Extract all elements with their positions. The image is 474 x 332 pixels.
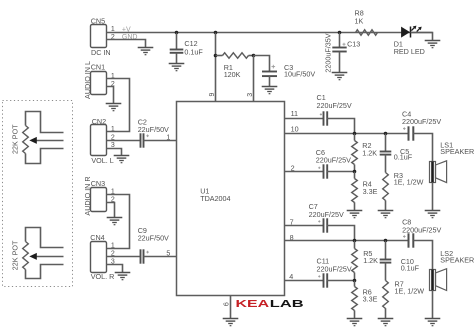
ground under R6 bbox=[347, 310, 363, 325]
svg-text:5: 5 bbox=[166, 251, 170, 258]
CN2 pin 2 number bbox=[111, 134, 115, 141]
ground at LED bbox=[425, 41, 441, 48]
svg-text:9: 9 bbox=[209, 93, 216, 97]
capacitor C3 bbox=[262, 63, 315, 79]
LED D1 bbox=[394, 26, 425, 56]
wire C2 to U1 pin1 bbox=[144, 140, 177, 142]
svg-text:11: 11 bbox=[291, 109, 298, 118]
wire U1 pin6 to ground bbox=[230, 296, 232, 319]
ground at CN3 pin2 bbox=[107, 218, 123, 225]
U1 pin 2 number bbox=[291, 163, 295, 172]
ground at CN2 pin3 bbox=[114, 156, 130, 163]
wire C11 to R5/R6 junction bbox=[327, 280, 355, 282]
wire C6 to R2/R4 junction bbox=[327, 171, 355, 173]
U1 pin 4 number bbox=[289, 272, 293, 281]
svg-text:2200uF/25V: 2200uF/25V bbox=[402, 117, 441, 126]
junction pin8/R5 bbox=[353, 239, 357, 243]
svg-text:22uF/50V: 22uF/50V bbox=[138, 125, 169, 134]
junction +V/C12 bbox=[175, 31, 179, 35]
AUDIO IN L label rotated bbox=[83, 61, 92, 99]
wire +V rail from CN5 pin1 to LED ground corner bbox=[107, 32, 433, 34]
ground under R4 bbox=[347, 202, 363, 217]
capacitor C13 bbox=[332, 40, 360, 52]
wire CN4 pin3 to ground bbox=[107, 265, 123, 273]
22K POT label (right) bbox=[11, 240, 20, 270]
ground under R7 bbox=[378, 308, 394, 326]
potentiometer dashed enclosure bbox=[3, 101, 73, 287]
ground under R3 bbox=[378, 200, 394, 217]
svg-text:TDA2004: TDA2004 bbox=[200, 194, 230, 203]
resistor R3 bbox=[383, 155, 424, 201]
wire R1 right to pin 3 of U1 bbox=[253, 56, 255, 102]
svg-text:CN2: CN2 bbox=[92, 117, 106, 126]
wire CN1 pin1 to CN2 pin1 bbox=[107, 79, 130, 132]
connector CN3 (AUDIO IN R) bbox=[91, 179, 107, 211]
svg-text:2200uF/25V: 2200uF/25V bbox=[402, 226, 441, 235]
resistor R2 bbox=[352, 134, 378, 172]
svg-text:VOL. R: VOL. R bbox=[91, 272, 115, 281]
capacitor C12 bbox=[170, 39, 204, 56]
C13 value label rotated bbox=[324, 33, 333, 72]
net label +V bbox=[122, 26, 131, 33]
capacitor C4 bbox=[402, 110, 441, 141]
CN3 pin 2 number bbox=[111, 197, 115, 204]
junction +V/C13 bbox=[338, 31, 342, 35]
connector CN2 (VOL. L) bbox=[91, 117, 114, 165]
capacitor C11 bbox=[317, 256, 352, 287]
capacitor C8 bbox=[402, 218, 441, 248]
svg-text:VOL. L: VOL. L bbox=[91, 156, 113, 165]
U1 pin 8 number bbox=[290, 233, 294, 242]
wire C1 to pin10 rail bbox=[327, 119, 355, 134]
connector CN4 (VOL. R) bbox=[90, 233, 114, 281]
svg-text:10uF/50V: 10uF/50V bbox=[284, 70, 315, 79]
svg-text:220uF/25V: 220uF/25V bbox=[316, 156, 351, 165]
CN5 pin 2 number bbox=[111, 34, 115, 41]
wire CN3 pin2 to ground bbox=[107, 203, 115, 218]
ground at CN4 pin3 bbox=[115, 273, 131, 280]
U1 pin 9 number rotated bbox=[209, 93, 216, 97]
svg-text:1E, 1/2W: 1E, 1/2W bbox=[394, 178, 424, 187]
svg-text:1.2K: 1.2K bbox=[363, 256, 378, 265]
wire CN4 pin2 to C9 bbox=[107, 256, 141, 258]
capacitor C2 bbox=[138, 117, 169, 147]
junction R1 right bbox=[252, 54, 256, 58]
ground at CN5 pin2 bbox=[138, 48, 154, 55]
wire pin7 to C7 bbox=[285, 225, 324, 227]
wire CN5 pin2 to ground bbox=[107, 40, 146, 48]
U1 pin 5 number bbox=[166, 251, 170, 258]
CN4 pin 3 number bbox=[111, 259, 115, 266]
resistor R4 bbox=[352, 172, 378, 203]
U1 pin 1 number bbox=[166, 134, 170, 141]
ground under C3 bbox=[262, 76, 278, 94]
svg-text:3.3E: 3.3E bbox=[363, 295, 378, 304]
potentiometer left (22K POT) bbox=[23, 112, 64, 164]
junction R5/R6/C11 bbox=[353, 279, 357, 283]
svg-text:3.3E: 3.3E bbox=[363, 187, 378, 196]
junction R1 left bbox=[214, 54, 218, 58]
svg-text:DC IN: DC IN bbox=[91, 48, 111, 57]
wire C4 to LS1 bbox=[414, 134, 433, 162]
svg-text:2200uF/35V: 2200uF/35V bbox=[324, 33, 333, 72]
CN4 pin 1 number bbox=[111, 243, 115, 250]
capacitor C10 bbox=[380, 241, 420, 273]
AUDIO IN R label rotated bbox=[83, 176, 92, 215]
capacitor C1 bbox=[317, 93, 352, 126]
CN3 pin 1 number bbox=[111, 189, 115, 196]
CN1 pin 2 number bbox=[111, 81, 115, 88]
svg-text:220uF/25V: 220uF/25V bbox=[317, 264, 352, 273]
U1 pin 11 number bbox=[291, 109, 298, 118]
U1 pin 3 number rotated bbox=[247, 93, 254, 97]
junction pin10/R2 bbox=[353, 132, 357, 136]
svg-text:22K POT: 22K POT bbox=[11, 240, 20, 270]
svg-text:120K: 120K bbox=[224, 70, 241, 79]
svg-text:6: 6 bbox=[224, 302, 231, 306]
potentiometer right (22K POT) bbox=[23, 228, 64, 279]
resistor R5 bbox=[352, 241, 378, 281]
ground at U1 pin6 bbox=[223, 319, 239, 326]
svg-text:10: 10 bbox=[291, 125, 299, 134]
wire pin4 to C11 bbox=[285, 280, 324, 282]
junction +V/pin9 bbox=[214, 31, 218, 35]
wire CN2 pin3 to ground bbox=[107, 149, 122, 156]
wire CN3 pin1 to CN4 pin1 bbox=[107, 195, 130, 249]
ground under C13 bbox=[332, 52, 348, 80]
svg-text:CN4: CN4 bbox=[90, 233, 104, 242]
svg-text:220uF/25V: 220uF/25V bbox=[309, 210, 344, 219]
svg-text:0.1uF: 0.1uF bbox=[184, 47, 203, 56]
wire R1 to C3 bbox=[254, 56, 270, 72]
wire pin2 to C6 bbox=[285, 171, 324, 173]
svg-text:0.1uF: 0.1uF bbox=[394, 153, 413, 162]
wire CN2 pin2 to C2 bbox=[107, 140, 141, 142]
net label GND bbox=[122, 34, 138, 41]
wire LED cathode to ground bbox=[411, 33, 433, 41]
capacitor C5 bbox=[380, 134, 413, 162]
CN5 pin 1 number bbox=[111, 26, 115, 33]
speaker LS1 bbox=[430, 140, 474, 182]
op-amp U1 TDA2004 bbox=[177, 102, 285, 296]
speaker LS2 bbox=[430, 249, 474, 291]
capacitor C7 bbox=[309, 202, 344, 233]
U1 pin 10 number bbox=[291, 125, 299, 134]
connector CN5 (DC IN) bbox=[91, 16, 111, 57]
svg-text:RED LED: RED LED bbox=[394, 47, 425, 56]
svg-text:C13: C13 bbox=[347, 40, 360, 49]
svg-text:220uF/25V: 220uF/25V bbox=[317, 101, 352, 110]
wire pin8 rail bbox=[285, 240, 409, 242]
svg-text:22K POT: 22K POT bbox=[11, 124, 20, 154]
junction R2/R4/C6 bbox=[353, 170, 357, 174]
CN4 pin 2 number bbox=[111, 251, 115, 258]
wire rail to pin 9 of U1 bbox=[215, 33, 217, 102]
svg-text:KEA: KEA bbox=[236, 299, 270, 310]
U1 pin 6 number rotated bbox=[224, 302, 231, 306]
junction pin8/C10 bbox=[384, 239, 388, 243]
wire pin10 rail bbox=[285, 133, 409, 135]
svg-text:4: 4 bbox=[289, 272, 293, 281]
svg-text:SPEAKER: SPEAKER bbox=[440, 147, 474, 156]
KEALAB logo bbox=[236, 299, 304, 310]
ground under LS1 bbox=[425, 182, 441, 218]
svg-text:1.2K: 1.2K bbox=[362, 148, 377, 157]
CN1 pin 1 number bbox=[111, 73, 115, 80]
svg-text:CN5: CN5 bbox=[91, 16, 105, 25]
22K POT label (left) bbox=[11, 124, 20, 154]
wire CN1 pin2 to ground bbox=[107, 87, 114, 104]
svg-text:1: 1 bbox=[111, 126, 115, 133]
svg-text:3: 3 bbox=[247, 93, 254, 97]
wire C12 to rail bbox=[176, 33, 178, 50]
svg-text:22uF/50V: 22uF/50V bbox=[138, 234, 169, 243]
resistor R7 bbox=[383, 263, 425, 309]
capacitor C4 polarity mark bbox=[403, 127, 406, 130]
CN2 pin 3 number bbox=[111, 142, 115, 149]
resistor R8 bbox=[355, 9, 378, 36]
svg-text:SPEAKER: SPEAKER bbox=[440, 256, 474, 265]
svg-text:1: 1 bbox=[111, 243, 115, 250]
svg-text:1K: 1K bbox=[355, 17, 364, 26]
ground at CN1 pin2 bbox=[106, 104, 122, 111]
svg-text:1: 1 bbox=[166, 134, 170, 141]
wire C8 to LS2 bbox=[414, 241, 433, 270]
svg-text:1E, 1/2W: 1E, 1/2W bbox=[395, 286, 425, 295]
capacitor C3 polarity mark bbox=[272, 65, 276, 69]
capacitor C8 polarity mark bbox=[403, 235, 406, 238]
resistor R1 bbox=[216, 53, 254, 79]
capacitor C6 bbox=[316, 148, 351, 179]
U1 pin 7 number bbox=[290, 217, 294, 226]
wire pin11 to C1 bbox=[285, 118, 324, 120]
svg-text:CN3: CN3 bbox=[91, 179, 105, 188]
svg-text:CN1: CN1 bbox=[91, 62, 105, 71]
ground under C12 bbox=[169, 53, 185, 71]
capacitor C13 polarity mark bbox=[343, 43, 346, 46]
connector CN1 (AUDIO IN L) bbox=[91, 62, 107, 94]
CN2 pin 1 number bbox=[111, 126, 115, 133]
wire C13 to rail bbox=[339, 33, 341, 48]
capacitor C9 bbox=[138, 226, 169, 264]
svg-text:LAB: LAB bbox=[270, 299, 304, 310]
resistor R6 bbox=[352, 281, 378, 311]
ground under LS2 bbox=[425, 290, 441, 326]
wire C7 to pin8 rail bbox=[327, 226, 355, 241]
junction pin10/C5 bbox=[384, 132, 388, 136]
wire C9 to U1 pin5 bbox=[144, 256, 177, 258]
svg-text:0.1uF: 0.1uF bbox=[401, 263, 420, 272]
